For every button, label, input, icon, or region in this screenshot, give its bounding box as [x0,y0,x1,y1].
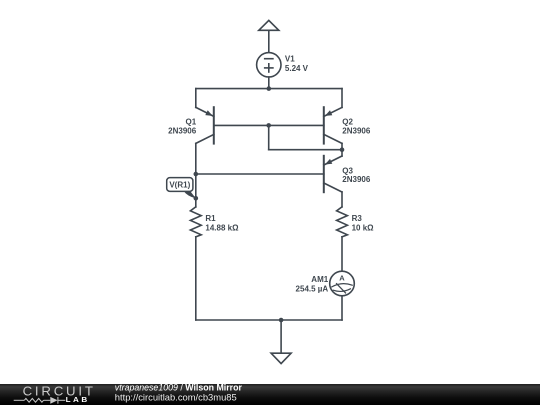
svg-text:A: A [339,274,345,283]
wire V1 to top rail [268,77,270,89]
svg-text:R1: R1 [205,214,216,223]
wire Q2 collector to node [341,143,343,149]
ammeter AM1 [330,271,355,296]
wire VCC flag to V1 [268,30,270,52]
node at base rail [266,123,271,128]
svg-text:Q1: Q1 [186,118,197,127]
wire base tap down [268,125,270,149]
transistor Q2 [324,107,342,143]
svg-text:5.24 V: 5.24 V [285,64,309,73]
svg-text:2N3906: 2N3906 [342,175,371,184]
ground [271,353,291,363]
wire Q3 base to node A [196,173,324,175]
wire node to Q3 emitter [341,150,343,156]
resistor R1 [190,207,201,237]
wire Q2 emitter drop [341,89,343,108]
svg-text:Q3: Q3 [342,166,353,175]
node Q2 collector / Q3 emitter [340,147,345,152]
node flag anchor [194,196,199,201]
node A (Q1 collector / Q3 base) [194,172,199,177]
wire R1 to bottom rail [195,237,197,320]
wire bottom rail [196,319,342,321]
svg-text:254.5 µA: 254.5 µA [296,285,329,294]
svg-text:V(R1): V(R1) [169,181,190,190]
flag V(R1) [167,178,196,199]
wire Q1 collector drop to R1 [195,143,197,207]
transistor Q1 [196,107,214,143]
svg-text:LAB: LAB [66,397,90,404]
footer bar [0,384,540,405]
wire top rail [196,88,342,90]
node at bottom rail / ground [279,318,284,323]
wire R3 to ammeter [341,237,343,271]
wire tap to Q2 collector node [269,149,342,151]
svg-text:R3: R3 [352,214,363,223]
svg-text:AM1: AM1 [311,275,328,284]
wire base rail Q1-Q2 [214,124,324,126]
svg-text:Q2: Q2 [342,118,353,127]
voltage source V1 [257,53,281,77]
wire Q1 emitter drop [195,89,197,108]
power flag VCC [259,20,279,30]
node at top rail [267,86,272,91]
transistor Q3 [324,156,342,192]
svg-text:14.88 kΩ: 14.88 kΩ [205,224,239,233]
CircuitLab logo wordmark [14,384,96,405]
wire ground stub [280,320,282,353]
svg-text:10 kΩ: 10 kΩ [352,224,375,233]
svg-text:2N3906: 2N3906 [168,126,197,135]
svg-text:2N3906: 2N3906 [342,126,371,135]
resistor R3 [337,207,348,237]
svg-text:http://circuitlab.com/cb3mu85: http://circuitlab.com/cb3mu85 [115,391,237,402]
svg-text:V1: V1 [285,55,295,64]
wire Q3 collector to R3 [341,192,343,207]
wire ammeter to bottom rail [341,296,343,320]
